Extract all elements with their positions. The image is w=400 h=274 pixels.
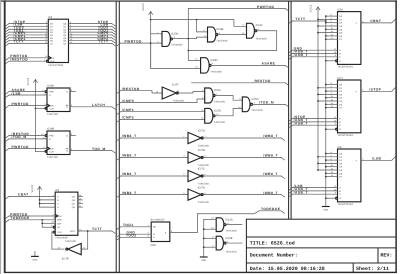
wire input rail (right column) (325, 16, 327, 207)
wire unused-gate input rail (203, 219, 205, 257)
svg-text:Q: Q (66, 150, 68, 153)
node /ASB_T wire to IC54 select B (289, 50, 338, 56)
node TOD2 wire to IC50 (117, 234, 151, 240)
node /CMP1 input wire to IC3 pin 14 (6, 34, 49, 40)
svg-text:IC13C: IC13C (256, 24, 263, 27)
node PWRTOD wire to IC9 CLK pin 2 (6, 212, 56, 218)
node /ASB_T wire to IC8 select B (289, 187, 338, 193)
node PWRTOD top wire (188, 5, 288, 11)
svg-text:/ASB_T: /ASB_T (294, 53, 308, 57)
svg-text:/CMP0: /CMP0 (122, 99, 134, 103)
junction VCC at IC71 D1 (317, 87, 319, 89)
node TOD_M wire from IC16B pin 8 (70, 147, 115, 153)
wire PWRTOD down to IC18D pin 13 (151, 43, 201, 69)
svg-text:GND: GND (32, 259, 37, 262)
svg-text:IC17D: IC17D (198, 186, 205, 189)
frame top border (1, 0, 397, 2)
wire rail to IC71 D6 (326, 103, 338, 105)
wire rail to IC71 D2 (326, 90, 338, 92)
wire rail to IC8 D7 (326, 176, 338, 178)
svg-text:74AC04D: 74AC04D (198, 164, 209, 167)
junction rail at IC54 D2 (325, 22, 327, 24)
page left shadow edge (0, 0, 2, 274)
counter IC9 (53, 189, 78, 240)
node /RESTOD wire to IC17F pin 13 (117, 87, 162, 93)
svg-text:74AC02D: 74AC02D (252, 109, 263, 112)
wire rail to IC71 D0 (326, 84, 338, 86)
flip-flop IC16B (45, 128, 70, 159)
junction PWRTOD branch (150, 42, 152, 44)
svg-text:IC9: IC9 (55, 189, 60, 192)
svg-text:IC22A: IC22A (214, 89, 221, 92)
junction rail at IC54 D0 (325, 15, 327, 17)
frame bottom border (4, 271, 397, 273)
svg-text:CLR: CLR (57, 231, 62, 234)
svg-text:74AC04D: 74AC04D (65, 240, 76, 243)
svg-text:IC17B: IC17B (198, 149, 205, 152)
node /TOD_M wire from IC22C output (253, 101, 289, 107)
wire IC22A output to IC22C pin 9 (215, 96, 242, 101)
junction rail to IC13B pin 4 branch (196, 19, 198, 21)
svg-text:RESTOD: RESTOD (255, 79, 272, 83)
node /LSB wire to IC8 select A (289, 184, 338, 190)
svg-text:CLR: CLR (50, 60, 55, 63)
wire VCC rail to IC54 D1 (318, 18, 338, 20)
svg-text:IC13B: IC13B (216, 28, 223, 31)
node TCTT wire to mux rail (289, 17, 326, 23)
svg-text:G: G (339, 60, 341, 63)
svg-text:/RESTOD: /RESTOD (122, 87, 140, 91)
svg-text:Q: Q (66, 106, 68, 109)
svg-text:TOD_M: TOD_M (92, 147, 106, 151)
node /STOP wire to IC71 select A (289, 115, 338, 121)
wire IC17F output to IC22A pin 3 (177, 92, 205, 94)
svg-text:/WB8_T: /WB8_T (122, 172, 137, 176)
power VCC3 symbol (right column) (309, 4, 320, 170)
svg-text:/CMP2: /CMP2 (122, 116, 134, 120)
node TODEDGE wire to IC9 ENP pin 7 (6, 216, 56, 222)
svg-text:TOD1: TOD1 (123, 223, 134, 227)
ground symbol (left column) (32, 252, 39, 262)
junction VCC at IC8 D5 (317, 169, 319, 171)
svg-text:CLR: CLR (49, 151, 54, 154)
junction rail at IC71 D2 (325, 90, 327, 92)
svg-text:IC22C: IC22C (252, 98, 259, 101)
wire rail to IC13B pin 4 (197, 20, 208, 33)
node /WB8_T wire from IC17A output (204, 134, 285, 140)
junction rail at IC8 D2 (325, 159, 327, 161)
node /WB8_T wire from IC17C output (204, 172, 285, 178)
node CMP0 output wire from IC3 pin 12 (69, 31, 116, 37)
svg-text:74AC02D: 74AC02D (226, 250, 237, 253)
node STOP output wire from IC3 pin 2 (69, 20, 116, 26)
junction rail at IC54 D4 (325, 28, 327, 30)
node TOD1 wire to IC50 (117, 223, 151, 229)
or gate IC61D (216, 218, 237, 233)
node LATCH wire from IC16A pin 6 (70, 103, 115, 109)
svg-text:IC22B: IC22B (226, 237, 233, 240)
inverter IC17D (188, 186, 209, 204)
svg-text:QA: QA (72, 195, 76, 198)
svg-text:VCC3: VCC3 (27, 77, 30, 85)
svg-text:REV:: REV: (380, 252, 392, 258)
wire rail to IC8 enable G (326, 197, 336, 199)
junction at IC9 B (39, 199, 41, 201)
power VCC3 symbol at IC9 (31, 184, 42, 207)
svg-text:74CBT3251D: 74CBT3251D (338, 66, 354, 69)
svg-text:QD: QD (72, 206, 76, 209)
wire VCC3 to IC16B CLR pin (35, 150, 46, 152)
wire VCC rail to IC8 D5 (318, 169, 338, 171)
svg-text:/RESTOD: /RESTOD (10, 58, 28, 62)
node /ASB_T wire to IC71 select C (289, 121, 338, 127)
node /ASB_T wire to IC8 select C (289, 190, 338, 196)
svg-text:ASARE: ASARE (262, 62, 276, 66)
stub IC61D output (226, 224, 242, 226)
nand gate IC13A (162, 31, 183, 46)
title block frame (246, 219, 396, 272)
wire VCC3 to IC9 C (40, 203, 56, 205)
node /RESTOD wire to IC3 CLR pin 1 (6, 58, 47, 64)
node GND wire to IC50 (117, 230, 151, 236)
svg-text:74AC163D: 74AC163D (55, 237, 68, 240)
node CMP1 output wire from IC3 pin 15 (69, 34, 116, 40)
power VCC3 symbol (left column) (27, 77, 38, 108)
node /CMP2 input wire to IC3 pin 17 (6, 37, 49, 43)
svg-text:LATCH: LATCH (92, 103, 105, 107)
svg-text:IC17E: IC17E (62, 258, 69, 261)
svg-text:IC13A: IC13A (171, 33, 178, 36)
svg-text:IC16B: IC16B (47, 128, 54, 131)
ground symbol (middle column) (200, 257, 207, 262)
junction IC13A output to top label (187, 38, 189, 40)
svg-text:/WB8_T: /WB8_T (263, 191, 278, 195)
wire RCO to inverter IC17E input (81, 231, 87, 249)
junction rail at IC71 G (325, 128, 327, 130)
wire VCC rail to IC8 D3 (318, 162, 338, 164)
nor gate IC22D (205, 108, 226, 123)
junction at IC9 C (39, 203, 41, 205)
wire rail to IC22B pin 5 (204, 245, 216, 248)
mux IC50 (151, 219, 170, 247)
power VCC3 symbol (middle column) (142, 3, 153, 69)
svg-text:IC22D: IC22D (214, 109, 221, 112)
node TCTT output wire from IC3 pin 19 (69, 40, 116, 46)
junction rail at IC54 D6 (325, 35, 327, 37)
junction VCC at IC8 D1 (317, 156, 319, 158)
wire rail to IC71 enable G (326, 128, 336, 130)
multiplexer IC8 (336, 146, 361, 206)
svg-text:/TOD_M: /TOD_M (12, 135, 27, 139)
junction rail at IC8 D4 (325, 166, 327, 168)
svg-text:Q: Q (66, 91, 68, 94)
svg-text:G: G (339, 197, 341, 200)
node /TOD_M wire to IC16B D pin 12 (6, 135, 47, 141)
svg-text:Document Number:: Document Number: (250, 252, 298, 258)
junction VCC at IC54 D3 (317, 25, 319, 27)
svg-text:IC17C: IC17C (198, 168, 205, 171)
wire IC17E output to IC9 CLR pin 1 (51, 230, 64, 250)
stub IC9 QD pin 11 (78, 205, 83, 208)
wire rail to IC54 enable G (326, 60, 336, 62)
node /CMP0 input wire to IC3 pin 13 (6, 31, 49, 37)
svg-text:74AC02D: 74AC02D (214, 101, 225, 104)
svg-text:74AC00D: 74AC00D (216, 39, 227, 42)
node TOD0 input wire to IC3 pin 7 (6, 26, 49, 32)
svg-text:/CMP1: /CMP1 (122, 108, 134, 112)
node /WB8_T wire from IC17D output (204, 191, 285, 197)
junction VCC rail top (150, 19, 152, 21)
node /WB8_T wire from IC17B output (204, 154, 285, 160)
stub IC13A pin 1 (151, 31, 162, 34)
node PWRTOD wire to IC3 CLK pin 11 (6, 54, 49, 60)
nand gate IC18D (201, 58, 222, 74)
node /CMP1 wire to IC22D pin 11 (117, 108, 205, 114)
svg-text:Sheet: 2/11: Sheet: 2/11 (356, 266, 389, 272)
junction VCC at IC71 D5 (317, 100, 319, 102)
wire VCC3 to IC16A CLR pin (35, 107, 46, 109)
svg-text:PWRTOD: PWRTOD (125, 39, 142, 43)
node /CMP2 wire to IC22D pin 12 (117, 116, 205, 122)
svg-text:VCC3: VCC3 (309, 4, 312, 12)
svg-text:VCC3: VCC3 (142, 3, 145, 11)
svg-text:IC54: IC54 (338, 8, 344, 11)
svg-text:74AC00D: 74AC00D (256, 38, 267, 41)
node CBAT wire to IC9 A pin 3 (6, 193, 56, 199)
wire rail to IC54 D2 (326, 22, 338, 24)
svg-text:PRE: PRE (49, 91, 54, 94)
junction VCC at IC71 D3 (317, 94, 319, 96)
node PWRTOD wire to IC16A CLK pin 3 (6, 102, 47, 108)
stub IC9 QC pin 12 (78, 201, 83, 204)
wire rail to IC22B pin 4 (204, 236, 216, 239)
wire rail to IC54 D7 (326, 38, 338, 40)
svg-text:QC: QC (72, 203, 76, 206)
junction rail at IC71 D0 (325, 84, 327, 86)
svg-text:QB: QB (72, 199, 76, 202)
svg-text:Date: 15.05.2020 08:16:28: Date: 15.05.2020 08:16:28 (250, 266, 325, 272)
nand gate IC13C (247, 23, 267, 40)
wire rail to IC71 D4 (326, 97, 338, 99)
wire VCC3 to IC9 B (40, 199, 56, 201)
node /LSB input wire to IC3 pin 4 (6, 23, 49, 29)
node RESTOD label wire (192, 79, 289, 85)
column divider right (double line) (289, 1, 292, 219)
wire VCC rail to IC71 D1 (318, 87, 338, 89)
wire ENP to ENT/LD (41, 220, 43, 227)
svg-text:74AC00D: 74AC00D (171, 43, 182, 46)
svg-text:74AC00D: 74AC00D (226, 229, 237, 232)
wire IC50 output up to TODEDGE (170, 214, 198, 233)
junction rail at IC8 D0 (325, 153, 327, 155)
svg-text:IC16A: IC16A (47, 85, 54, 88)
wire rail to IC54 D0 (326, 15, 338, 17)
flip-flop IC16A (45, 85, 70, 116)
nor gate IC22A (205, 88, 226, 104)
wire VCC rail to IC71 D5 (318, 100, 338, 102)
node GND wire to IC54 select A (289, 46, 338, 52)
junction feedback at vertical (187, 50, 189, 52)
junction rail at IC71 D7 (325, 107, 327, 109)
node PWRTOD wire to IC13A pin 2 (117, 39, 162, 45)
svg-text:74AC04D: 74AC04D (198, 201, 209, 204)
svg-text:G: G (339, 128, 341, 131)
frame right border (395, 0, 397, 273)
svg-text:74AC04D: 74AC04D (198, 182, 209, 185)
svg-text:74AC273DW: 74AC273DW (48, 64, 64, 67)
wire VCC3 rail to IC16B CLR (34, 108, 36, 151)
svg-text:74CBT3251D: 74CBT3251D (338, 134, 354, 137)
svg-text:IC61D: IC61D (226, 219, 233, 222)
wire rail to IC8 D0 (326, 153, 338, 155)
wire VCC rail to IC71 D3 (318, 93, 338, 95)
junction rail at IC61D pin 12 (203, 228, 205, 230)
svg-text:IC18D: IC18D (210, 59, 217, 62)
node /ASB_T wire to IC54 select C (289, 53, 338, 59)
junction at ENT (41, 222, 43, 224)
svg-text:GND: GND (323, 209, 328, 212)
svg-text:/WB8_T: /WB8_T (263, 172, 278, 176)
wire VCC rail to IC54 D5 (318, 32, 338, 34)
junction rail at IC54 G (325, 60, 327, 62)
junction VCC at IC54 D1 (317, 19, 319, 21)
frame left border (4, 0, 6, 273)
node /ASB_T wire to IC71 select B (289, 118, 338, 124)
svg-text:TODEDGE: TODEDGE (10, 216, 30, 220)
svg-text:IC17F: IC17F (172, 83, 179, 86)
wire IC13A output to IC13B pin 5 (172, 37, 207, 39)
column divider left (double line) (116, 1, 119, 272)
multiplexer IC71 (336, 77, 361, 137)
junction RCO branch (87, 230, 89, 232)
svg-text:TCTT: TCTT (295, 17, 305, 21)
svg-text:NC7SB3257: NC7SB3257 (151, 219, 166, 222)
wire IC22D output to IC22C pin 10 (215, 109, 242, 116)
node TCTT input wire to IC3 pin 18 (6, 40, 49, 46)
junction rail at IC8 D6 (325, 172, 327, 174)
junction rail at IC8 D7 (325, 176, 327, 178)
svg-text:LD: LD (57, 226, 60, 229)
node /STOP wire from IC71 Y output (361, 87, 395, 91)
svg-text:Q: Q (66, 135, 68, 138)
wire rail to IC54 D4 (326, 28, 338, 30)
node /WB8_T wire to IC17A pin 1 (117, 134, 188, 140)
svg-text:CBAT: CBAT (18, 193, 29, 197)
node LSB output wire from IC3 pin 5 (69, 23, 116, 29)
svg-text:TCTT: TCTT (92, 227, 102, 231)
ground symbol (right column) (323, 207, 330, 212)
node /CMP0 wire to IC22A pin 2 (117, 96, 205, 105)
node TOD1 output wire from IC3 pin 9 (69, 28, 116, 34)
inverter IC17B (188, 149, 209, 167)
svg-text:/WB8_T: /WB8_T (122, 191, 137, 195)
junction TCTT at rail (325, 20, 327, 22)
node /STOP input wire to IC3 pin 3 (6, 20, 49, 26)
svg-text:/WB8_T: /WB8_T (122, 134, 137, 138)
inverter IC17E (58, 240, 86, 261)
inverter IC17C (188, 168, 209, 186)
wire VCC rail to IC8 D1 (318, 156, 338, 158)
node /LSB wire from IC8 Y output (361, 156, 395, 160)
svg-text:CLK: CLK (49, 148, 54, 151)
junction VCC3 at IC16A CLR branch (35, 107, 37, 109)
inverter IC17A (188, 130, 209, 148)
svg-text:PRE: PRE (49, 135, 54, 138)
node ASARE wire from IC18D output (211, 62, 288, 68)
wire VCC rail to IC54 D3 (318, 25, 338, 27)
node TODEDGE wire to right divider (198, 207, 285, 214)
svg-text:/WB8_T: /WB8_T (263, 154, 278, 158)
svg-text:IC3: IC3 (48, 16, 53, 19)
stub IC16B Q pin 9 (70, 133, 76, 136)
wire IC13C feedback loop (188, 31, 276, 51)
wire rail to IC61D pin 12 (204, 227, 216, 230)
svg-text:CLR: CLR (49, 108, 54, 111)
node /WB8_T wire to IC17B pin 3 (117, 154, 188, 160)
junction rail at IC54 D7 (325, 38, 327, 40)
svg-text:TITLE: 6526_tod: TITLE: 6526_tod (250, 241, 295, 247)
svg-text:CLK: CLK (49, 105, 54, 108)
node /WB8_T wire to IC17C pin 5 (117, 172, 188, 178)
svg-text:74AC02D: 74AC02D (214, 121, 225, 124)
svg-text:IC71: IC71 (338, 77, 344, 80)
nor gate IC22B (216, 236, 237, 253)
junction ENP branch (41, 219, 43, 221)
svg-text:GND: GND (201, 259, 206, 262)
node TCTT wire from IC9 RCO pin 15 (78, 227, 115, 233)
nand gate IC13B (208, 27, 228, 42)
wire rail to IC8 D6 (326, 172, 338, 174)
svg-text:IC50: IC50 (151, 244, 157, 247)
wire IC13B output to IC13C pin 10 (218, 32, 247, 35)
stub IC9 QB pin 13 (78, 197, 83, 200)
svg-text:/WB8_T: /WB8_T (122, 154, 137, 158)
svg-text:/ASB_T: /ASB_T (294, 121, 308, 125)
node TOD1 input wire to IC3 pin 8 (6, 28, 49, 34)
svg-text:IC8: IC8 (338, 146, 343, 149)
svg-text:74CBT3251D: 74CBT3251D (338, 203, 354, 206)
svg-text:/ASB_T: /ASB_T (294, 190, 308, 194)
wire VCC3 to IC9 D (40, 206, 56, 208)
nor gate IC22C (242, 97, 263, 112)
svg-text:74AC74D: 74AC74D (47, 156, 58, 159)
junction rail at IC71 D6 (325, 103, 327, 105)
junction rail at IC22B pin 4 (203, 237, 205, 239)
wire to IC9 ENT pin 10 (42, 221, 55, 224)
junction rail at IC22B pin 5 (203, 246, 205, 248)
node /RESTOD wire to IC16B PRE pin 10 (6, 132, 45, 138)
node TOD0 output wire from IC3 pin 6 (69, 26, 116, 32)
node ASARE wire to IC16A PRE pin 4 (6, 88, 45, 94)
svg-text:/WB8_T: /WB8_T (263, 134, 278, 138)
svg-text:/TOD_M: /TOD_M (259, 101, 274, 105)
svg-text:TOD2: TOD2 (126, 234, 137, 238)
svg-text:IC17A: IC17A (198, 130, 205, 133)
svg-text:/LSB: /LSB (12, 91, 21, 95)
wire VCC rail to IC13C pin 9 (151, 20, 247, 27)
wire rail to IC61D pin 10 (204, 217, 216, 220)
svg-text:ENT: ENT (57, 222, 62, 225)
svg-text:PWRTOD: PWRTOD (12, 102, 29, 106)
stub IC16A Q pin 5 (70, 89, 76, 92)
stub IC9 QA pin 14 (78, 194, 83, 197)
node CMP2 output wire from IC3 pin 16 (69, 37, 116, 43)
svg-text:CBNT: CBNT (370, 19, 381, 23)
wire rail to IC71 D7 (326, 107, 338, 109)
wire top label down to IC18D pin 12 (188, 9, 200, 61)
svg-text:TCTT: TCTT (98, 40, 108, 44)
wire rail to IC8 D2 (326, 159, 338, 161)
